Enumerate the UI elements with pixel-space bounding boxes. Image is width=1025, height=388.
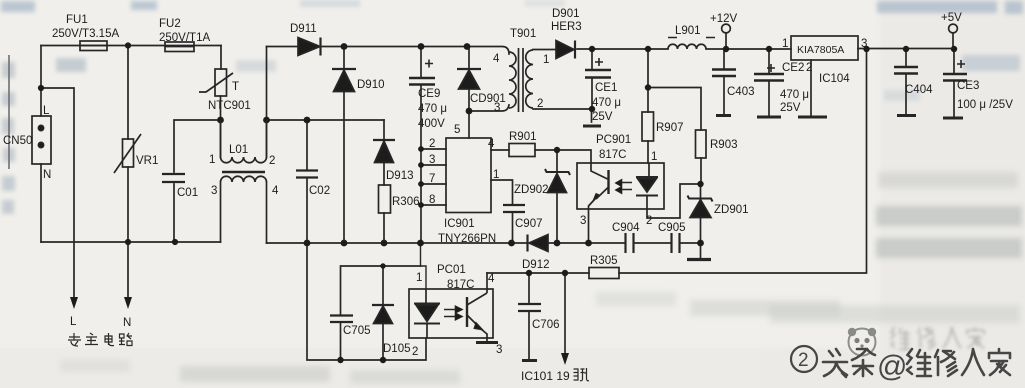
wire C404 leads xyxy=(905,49,907,115)
wire ZD901 leads xyxy=(700,184,702,258)
page edge line left xyxy=(8,55,10,169)
wire L tap to main circuit xyxy=(41,88,74,298)
svg-text:IC101 19: IC101 19 xyxy=(521,369,570,383)
wire +5V rail xyxy=(858,48,954,50)
wire C705 leads xyxy=(341,266,421,360)
svg-text:PC901: PC901 xyxy=(596,134,631,146)
svg-text:L01: L01 xyxy=(229,144,248,156)
resistor R903 xyxy=(696,130,707,158)
zener ZD902 xyxy=(545,169,570,193)
ground CE2 xyxy=(757,116,781,119)
fuse FU2 xyxy=(165,42,194,52)
wire PC901 pin2 jog xyxy=(647,184,701,218)
svg-text:+5V: +5V xyxy=(941,12,962,24)
wire D901 cathode to +12V rail xyxy=(577,48,791,50)
wire primary ground rail xyxy=(267,242,701,244)
svg-text:2: 2 xyxy=(429,138,435,150)
diode D910 xyxy=(332,69,356,92)
wire R903 branch xyxy=(648,88,701,185)
svg-text:C905: C905 xyxy=(658,222,686,234)
thermistor T NTC901 xyxy=(199,69,233,96)
svg-text:VR1: VR1 xyxy=(136,155,158,167)
svg-text:CN50: CN50 xyxy=(3,135,32,147)
svg-text:400V: 400V xyxy=(418,118,445,130)
svg-text:PC01: PC01 xyxy=(437,264,466,276)
svg-text:1: 1 xyxy=(209,154,215,166)
svg-text:4: 4 xyxy=(272,185,279,197)
wire T901 pin2 return xyxy=(533,108,592,110)
svg-text:C907: C907 xyxy=(515,218,543,230)
wire CD901 leads xyxy=(468,47,470,112)
ground CE1 xyxy=(583,125,601,128)
svg-text:2: 2 xyxy=(798,350,809,371)
wire CE3 leads xyxy=(953,49,955,117)
wire rectified rail xyxy=(267,47,510,55)
watermark panda logo xyxy=(848,328,876,356)
varistor VR1 xyxy=(114,134,141,173)
wire L01 pin4 xyxy=(266,182,268,243)
resistor R306 xyxy=(379,185,391,213)
resistor R901 xyxy=(509,144,535,157)
svg-text:D105: D105 xyxy=(383,343,411,355)
svg-text:N: N xyxy=(123,317,131,329)
svg-text:C02: C02 xyxy=(309,185,330,197)
svg-text:C705: C705 xyxy=(343,325,371,337)
svg-text:3: 3 xyxy=(429,154,435,166)
wire +5V terminal lead xyxy=(952,33,954,49)
svg-text:4: 4 xyxy=(488,138,495,150)
wire +12V terminal lead xyxy=(725,33,727,49)
faint background text blobs xyxy=(1,0,1023,101)
svg-text:817C: 817C xyxy=(599,149,627,161)
optocoupler PC01 internals xyxy=(414,289,487,338)
capacitor CE2 xyxy=(754,64,784,81)
wire IC101 pin19 arrow lead xyxy=(564,273,566,355)
choke L01 xyxy=(221,120,267,182)
wire lower loop to PC01 pin2 xyxy=(307,243,426,360)
svg-text:R306: R306 xyxy=(392,196,420,208)
svg-text:C01: C01 xyxy=(177,187,198,199)
svg-text:IC901: IC901 xyxy=(444,218,475,230)
svg-text:3: 3 xyxy=(580,215,586,227)
arrow to IC101 pin19 xyxy=(561,353,569,365)
ground C706 xyxy=(522,359,537,362)
svg-text:R903: R903 xyxy=(710,139,738,151)
fuse FU1 xyxy=(80,41,107,51)
capacitor C02 xyxy=(296,171,318,178)
wire IC104 pin2 xyxy=(810,60,812,116)
wire PC01 pin4 up xyxy=(486,273,488,289)
svg-text:470 μ: 470 μ xyxy=(418,103,447,115)
wire R901 line to PC901 collector xyxy=(491,150,591,163)
svg-text:FU1: FU1 xyxy=(66,14,88,26)
svg-text:L: L xyxy=(43,105,50,117)
svg-text:HER3: HER3 xyxy=(551,21,582,33)
svg-text:250V/T3.15A: 250V/T3.15A xyxy=(52,28,119,40)
svg-text:4: 4 xyxy=(493,53,500,65)
svg-text:D910: D910 xyxy=(357,79,385,91)
svg-text:TNY266PN: TNY266PN xyxy=(438,233,496,245)
svg-text:@: @ xyxy=(877,350,907,383)
watermark 头条@维修人家 xyxy=(823,349,1010,377)
capacitor C706 xyxy=(518,304,541,311)
capacitor C01 xyxy=(162,174,185,182)
wire D910 branch xyxy=(343,47,345,244)
diode D913 xyxy=(373,140,395,163)
wire L01 pin2 up / node2 xyxy=(266,47,268,158)
capacitor C907 xyxy=(503,205,525,212)
wire D105 leads xyxy=(382,266,384,360)
connector CN50 xyxy=(32,116,51,164)
ground C404 xyxy=(897,114,916,117)
wire N bottom rail xyxy=(41,241,221,243)
svg-text:R907: R907 xyxy=(656,122,684,134)
svg-text:R305: R305 xyxy=(590,255,618,267)
svg-text:817C: 817C xyxy=(447,279,475,291)
optocoupler PC01 box xyxy=(409,289,493,338)
label 脚 (pin) after IC101 19 xyxy=(574,368,590,381)
svg-text:CE2: CE2 xyxy=(782,62,804,74)
svg-text:2: 2 xyxy=(646,215,652,227)
capacitor CE3 xyxy=(943,60,967,81)
svg-text:IC104: IC104 xyxy=(819,73,850,85)
wire IC901 pin1 to C907 xyxy=(491,180,513,243)
terminal +12V xyxy=(722,24,731,33)
optocoupler PC901 internals xyxy=(589,163,659,209)
watermark circled 2 xyxy=(791,346,817,372)
svg-text:4: 4 xyxy=(488,273,495,285)
wire PC901 pin3 xyxy=(588,209,590,243)
capacitor C905 xyxy=(672,233,680,253)
svg-text:470 μ: 470 μ xyxy=(592,97,621,109)
ground PC01 pin3 xyxy=(476,338,498,343)
wire R907 top chain xyxy=(647,49,649,163)
svg-text:C904: C904 xyxy=(612,222,640,234)
svg-text:CD901: CD901 xyxy=(470,93,506,105)
wire IC901 pin5 xyxy=(468,111,470,138)
arrow L to main circuit xyxy=(70,297,78,309)
wire L01 pin3 xyxy=(220,182,222,242)
svg-text:250V/T1A: 250V/T1A xyxy=(159,32,210,44)
diode D901 HER3 xyxy=(556,41,575,59)
svg-text:25V: 25V xyxy=(780,102,801,114)
svg-text:D901: D901 xyxy=(552,8,580,20)
capacitor C403 xyxy=(712,70,736,77)
svg-text:D913: D913 xyxy=(386,170,414,182)
svg-text:D911: D911 xyxy=(290,23,317,35)
wire CE9 plus lead xyxy=(420,47,422,78)
svg-text:ZD901: ZD901 xyxy=(714,204,749,216)
capacitor C705 xyxy=(330,316,353,323)
wire CE9 minus / source line xyxy=(420,85,422,243)
wire C02 leads xyxy=(306,120,308,243)
diode CD901 xyxy=(457,69,481,89)
wire L input vertical xyxy=(40,46,42,117)
svg-text:+12V: +12V xyxy=(710,13,738,25)
svg-text:2: 2 xyxy=(537,98,543,110)
wire feedback line y273 xyxy=(487,49,867,273)
zener ZD901 xyxy=(688,196,713,218)
ground ZD901 xyxy=(687,258,711,261)
svg-text:2: 2 xyxy=(269,155,275,167)
capacitor C404 xyxy=(894,67,918,74)
wire CE1 leads and ground stub xyxy=(591,49,594,122)
capacitor C904 xyxy=(626,233,634,253)
wire NTC to node1 xyxy=(220,46,223,158)
wire node1 to C01 xyxy=(174,120,221,242)
svg-text:25V: 25V xyxy=(592,111,613,123)
svg-text:L: L xyxy=(70,316,77,328)
svg-text:2: 2 xyxy=(412,346,418,358)
resistor R907 xyxy=(642,112,654,141)
IC U KIA7805A box xyxy=(791,36,858,60)
svg-text:100 μ /25V: 100 μ /25V xyxy=(957,99,1013,111)
svg-text:8: 8 xyxy=(429,194,435,206)
svg-text:C706: C706 xyxy=(532,319,560,331)
diode D911 xyxy=(298,38,321,56)
svg-text:CE3: CE3 xyxy=(957,80,979,92)
wire ZD902 leads xyxy=(556,150,558,243)
ground CE3 xyxy=(943,117,963,120)
wire node2 rail y120 xyxy=(267,119,385,121)
svg-text:3: 3 xyxy=(211,185,217,197)
svg-text:N: N xyxy=(43,169,51,181)
svg-text:D912: D912 xyxy=(522,259,550,271)
svg-text:CE9: CE9 xyxy=(418,88,440,100)
svg-text:1: 1 xyxy=(543,54,549,66)
watermark ghost 维修人家 xyxy=(891,327,984,349)
svg-text:T901: T901 xyxy=(510,28,536,40)
svg-text:1: 1 xyxy=(651,151,657,163)
svg-text:1: 1 xyxy=(416,272,422,284)
ground C403 xyxy=(716,114,731,117)
wire IC901 pin stubs xyxy=(421,149,446,205)
diode D912 xyxy=(528,235,549,252)
svg-text:FU2: FU2 xyxy=(159,18,181,30)
svg-text:L901: L901 xyxy=(675,25,701,37)
IC U IC901 TNY266PN box xyxy=(446,138,491,213)
svg-text:7: 7 xyxy=(429,173,435,185)
svg-text:2: 2 xyxy=(806,62,812,74)
svg-text:C403: C403 xyxy=(727,86,755,98)
diode D105 xyxy=(372,305,394,324)
svg-text:R901: R901 xyxy=(509,131,537,143)
wire T901 pin3 xyxy=(469,105,509,111)
svg-text:5: 5 xyxy=(454,124,460,136)
svg-text:C404: C404 xyxy=(905,84,933,96)
resistor R305 xyxy=(589,268,619,279)
wire CN50 N lead down xyxy=(40,164,42,242)
svg-text:3: 3 xyxy=(494,102,500,114)
svg-text:ZD902: ZD902 xyxy=(514,184,549,196)
inductor L901 xyxy=(668,38,715,50)
wire PC01 pin1 xyxy=(421,243,427,289)
svg-text:KIA7805A: KIA7805A xyxy=(797,44,844,56)
svg-text:T: T xyxy=(232,81,239,93)
wire VR1 branch xyxy=(127,46,129,299)
svg-text:1: 1 xyxy=(782,38,788,50)
optocoupler PC901 box xyxy=(577,163,664,209)
terminal +5V xyxy=(949,24,958,33)
wire C403 leads xyxy=(723,49,725,114)
svg-text:NTC901: NTC901 xyxy=(208,100,251,112)
svg-text:470 μ: 470 μ xyxy=(780,89,809,101)
ground IC104 pin2 xyxy=(798,116,827,119)
wire D913 R306 branch xyxy=(383,120,385,243)
label 去主电路 (to main circuit) xyxy=(68,333,132,346)
wire CE2 leads xyxy=(768,49,770,116)
wire C706 leads xyxy=(528,273,530,360)
capacitor CE1 xyxy=(585,58,611,78)
wire top AC rail xyxy=(41,45,221,47)
svg-text:3: 3 xyxy=(496,344,502,356)
wire T901 pin1 to D901 xyxy=(533,49,556,51)
arrow N to main circuit xyxy=(124,297,132,309)
transformer T901 xyxy=(509,48,533,112)
svg-text:1: 1 xyxy=(493,169,499,181)
svg-text:3: 3 xyxy=(861,38,867,50)
svg-text:CE1: CE1 xyxy=(595,82,617,94)
capacitor CE9 xyxy=(409,60,435,85)
